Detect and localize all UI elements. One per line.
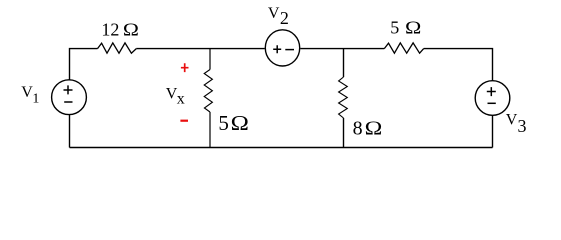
svg-text:V: V	[21, 84, 33, 101]
svg-text:8: 8	[353, 118, 363, 140]
svg-text:Ω: Ω	[405, 18, 421, 38]
wire branch node C down to 8ohm resistor	[343, 49, 345, 77]
resistor 8 ohm (vertical zigzag, right-middle branch)	[339, 77, 348, 118]
svg-text:Ω: Ω	[365, 117, 383, 140]
resistor 5 ohm (vertical zigzag, middle branch)	[204, 70, 212, 113]
svg-text:V: V	[268, 5, 280, 22]
wire from V2 to R 5ohm top (with junction to 8ohm branch)	[300, 48, 384, 50]
svg-text:Ω: Ω	[231, 112, 249, 135]
svg-text:5: 5	[390, 18, 399, 38]
bottom wire (ground return path)	[70, 147, 493, 149]
svg-text:2: 2	[280, 8, 289, 28]
resistor 5 ohm (horizontal zigzag, top right)	[384, 43, 423, 53]
V1 plus sign	[64, 85, 73, 94]
wire top-left segment (node A to R 12ohm)	[70, 49, 98, 80]
wire V1 bottom to bottom-left corner	[69, 115, 71, 148]
V3 plus sign	[487, 87, 496, 96]
svg-text:12: 12	[101, 20, 119, 40]
node Vx minus polarity mark (red)	[180, 120, 188, 122]
svg-text:Ω: Ω	[123, 20, 139, 40]
svg-text:5: 5	[218, 111, 229, 135]
V3 minus sign	[488, 102, 496, 104]
wire V3 bottom to bottom-right corner	[492, 115, 494, 147]
wire 5ohm resistor to bottom wire	[209, 112, 211, 148]
svg-text:x: x	[177, 90, 185, 107]
wire from 5ohm to top-right corner	[424, 49, 493, 81]
wire branch node B down to 5ohm resistor	[209, 49, 211, 70]
node Vx plus polarity mark (red)	[181, 63, 189, 72]
svg-text:3: 3	[518, 116, 527, 136]
V2 plus sign	[273, 45, 281, 53]
V2 minus sign	[285, 49, 294, 51]
svg-text:V: V	[506, 112, 518, 129]
voltage source V2 (series, circle)	[265, 30, 299, 66]
voltage source V3 (right side, circle)	[475, 81, 510, 116]
voltage source V1 (left side, circle)	[52, 80, 87, 115]
resistor 12 ohm (horizontal zigzag, top left)	[98, 43, 137, 53]
wire from 12ohm to V2 (node B, with junction to 5ohm branch)	[136, 48, 264, 50]
svg-text:1: 1	[32, 91, 39, 106]
wire 8ohm resistor to bottom wire	[343, 118, 345, 148]
V1 minus sign	[64, 101, 72, 103]
